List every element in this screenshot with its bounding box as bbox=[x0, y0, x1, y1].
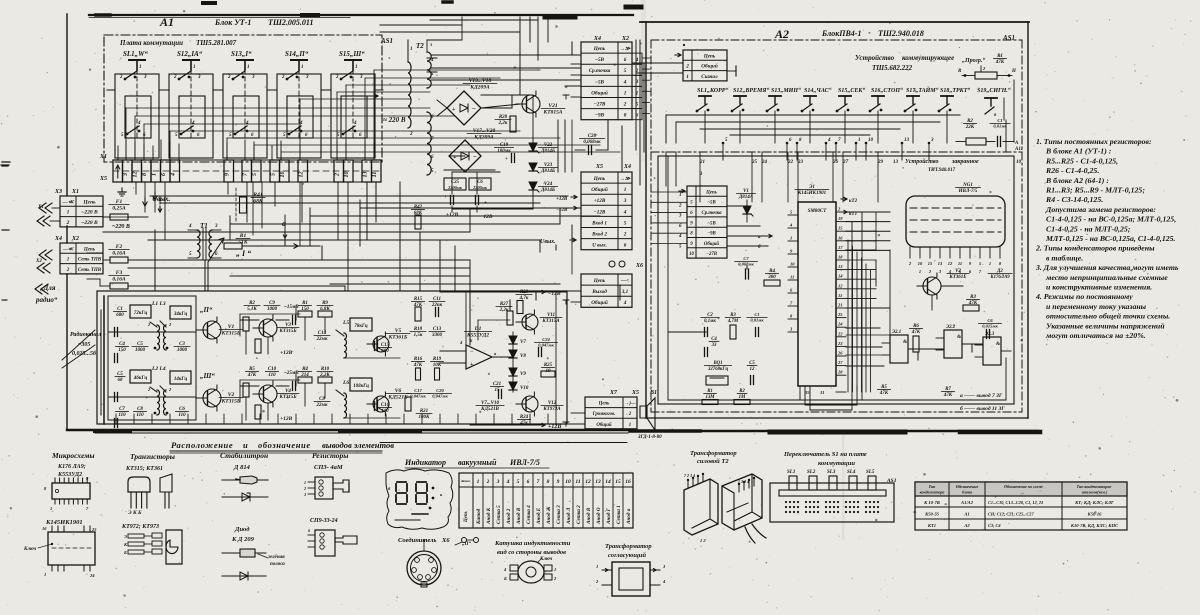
svg-text:СП3- 4аМ: СП3- 4аМ bbox=[314, 464, 343, 471]
svg-text:0,015мк: 0,015мк bbox=[982, 324, 998, 329]
svg-text:Х5: Х5 bbox=[631, 390, 639, 396]
svg-text:S14„ЧАС“: S14„ЧАС“ bbox=[804, 88, 832, 94]
svg-text:Цепь: Цепь bbox=[705, 190, 718, 195]
svg-text:Х2: Х2 bbox=[621, 36, 629, 42]
svg-text:150: 150 bbox=[118, 348, 126, 353]
svg-text:СН; С12; С21; С25...С27: СН; С12; С21; С25...С27 bbox=[988, 512, 1034, 517]
svg-text:и: и bbox=[243, 440, 248, 450]
svg-text:АS1: АS1 bbox=[380, 37, 393, 45]
svg-text:БлокПВ4-1: БлокПВ4-1 bbox=[821, 29, 861, 38]
svg-text:S14„П“: S14„П“ bbox=[285, 50, 309, 58]
svg-text:2: 2 bbox=[281, 75, 285, 80]
svg-text:1: 1 bbox=[477, 479, 480, 485]
svg-text:2: 2 bbox=[173, 75, 177, 80]
svg-text:−27В: −27В bbox=[706, 252, 718, 257]
svg-text:2: 2 bbox=[623, 231, 627, 237]
svg-text:32768кГц: 32768кГц bbox=[707, 367, 728, 372]
svg-text:С20: С20 bbox=[436, 388, 444, 393]
svg-text:Х7: Х7 bbox=[609, 390, 618, 396]
svg-text:согласующий: согласующий bbox=[608, 552, 646, 559]
svg-text:3: 3 bbox=[359, 75, 363, 80]
svg-text:ТИТ.940.017: ТИТ.940.017 bbox=[928, 168, 956, 173]
svg-text:1: 1 bbox=[247, 65, 250, 70]
svg-text:5: 5 bbox=[252, 173, 258, 176]
svg-text:V7: V7 bbox=[520, 340, 526, 345]
svg-text:−9В: −9В bbox=[595, 113, 605, 119]
svg-text:1: 1 bbox=[858, 138, 861, 143]
svg-text:+: + bbox=[505, 157, 508, 162]
svg-text:К145ИК1901: К145ИК1901 bbox=[797, 191, 826, 196]
svg-text:10К: 10К bbox=[433, 363, 442, 368]
svg-text:1: 1 bbox=[139, 65, 142, 70]
svg-text:Х4: Х4 bbox=[593, 36, 601, 42]
svg-text:2: 2 bbox=[486, 479, 490, 485]
svg-text:Тип: Тип bbox=[929, 484, 937, 489]
svg-text:С1-4-0,125 - на ВС-0,125а; МЛТ: С1-4-0,125 - на ВС-0,125а; МЛТ-0,125, bbox=[1046, 215, 1176, 224]
svg-text:Э: Э bbox=[124, 534, 127, 539]
svg-text:1: 1 bbox=[554, 567, 556, 572]
svg-text:К10-7В, КД, КЛС; КПС: К10-7В, КД, КЛС; КПС bbox=[1070, 523, 1119, 528]
svg-text:4: 4 bbox=[245, 121, 249, 126]
svg-text:Общий: Общий bbox=[591, 299, 608, 306]
svg-text:Цепь: Цепь bbox=[598, 402, 611, 407]
svg-text:Анод К: Анод К bbox=[485, 507, 492, 525]
svg-text:0,16А: 0,16А bbox=[112, 277, 126, 283]
svg-text:Общий: Общий bbox=[704, 241, 720, 247]
svg-text:КТ361Б: КТ361Б bbox=[388, 335, 408, 341]
svg-text:1: 1 bbox=[301, 65, 304, 70]
svg-text:С1: С1 bbox=[997, 118, 1002, 123]
svg-text:1: 1 bbox=[50, 506, 52, 511]
svg-text:Цепь: Цепь bbox=[464, 510, 469, 523]
svg-text:В1: В1 bbox=[649, 390, 657, 396]
svg-text:КТ315; КТ361: КТ315; КТ361 bbox=[125, 466, 163, 472]
svg-text:24: 24 bbox=[837, 322, 843, 327]
svg-text:КТ973А: КТ973А bbox=[542, 407, 561, 412]
svg-text:7: 7 bbox=[537, 479, 540, 485]
svg-text:1: 1 bbox=[304, 480, 306, 485]
svg-text:Анод Л: Анод Л bbox=[565, 507, 572, 525]
svg-text:22: 22 bbox=[837, 331, 843, 336]
svg-text:108кГц: 108кГц bbox=[353, 384, 369, 389]
svg-text:Анод В: Анод В bbox=[585, 507, 592, 525]
svg-text:10: 10 bbox=[918, 261, 923, 266]
svg-text:78кГц: 78кГц bbox=[354, 324, 368, 329]
svg-text:СП9-33-24: СП9-33-24 bbox=[310, 518, 338, 524]
svg-text:S15„СЕК“: S15„СЕК“ bbox=[838, 88, 865, 94]
svg-text:&: & bbox=[957, 335, 961, 340]
svg-text:4: 4 bbox=[623, 79, 627, 85]
svg-text:18: 18 bbox=[838, 255, 843, 260]
svg-text:К553УД2: К553УД2 bbox=[57, 472, 82, 478]
svg-text:33: 33 bbox=[711, 343, 717, 348]
svg-text:Х1: Х1 bbox=[71, 189, 79, 195]
svg-text:→)—: →)— bbox=[624, 402, 635, 407]
svg-text:~5В: ~5В bbox=[595, 57, 605, 63]
svg-text:68: 68 bbox=[118, 378, 124, 383]
svg-text:13: 13 bbox=[838, 264, 843, 269]
svg-text:Э2.3: Э2.3 bbox=[985, 332, 995, 337]
svg-text:~5В: ~5В bbox=[707, 201, 716, 206]
svg-text:0,068мк: 0,068мк bbox=[583, 140, 601, 145]
svg-text:0,068мк: 0,068мк bbox=[738, 262, 754, 267]
svg-text:Сетка 4: Сетка 4 bbox=[526, 505, 532, 524]
svg-text:Указанные величины напряжений: Указанные величины напряжений bbox=[1046, 321, 1165, 330]
svg-text:Х3: Х3 bbox=[54, 189, 62, 195]
svg-text:Сетка 1: Сетка 1 bbox=[616, 505, 622, 524]
svg-text:4: 4 bbox=[430, 58, 434, 63]
svg-text:2: 2 bbox=[303, 486, 306, 491]
svg-text:КД209А: КД209А bbox=[473, 135, 494, 141]
svg-text:1: 1 bbox=[152, 173, 158, 176]
svg-text:Анод а: Анод а bbox=[625, 508, 632, 525]
svg-text:1: 1 bbox=[629, 423, 631, 428]
svg-text:3. Для улучшения качества могу: 3. Для улучшения качества могут иметь bbox=[1035, 263, 1179, 272]
svg-text:б —— вывод 11 ЗГ: б —— вывод 11 ЗГ bbox=[960, 405, 1005, 412]
svg-text:−27В: −27В bbox=[594, 101, 606, 107]
svg-text:А2: А2 bbox=[774, 27, 789, 41]
svg-text:S16„СТОП“: S16„СТОП“ bbox=[871, 88, 903, 94]
svg-text:Трансформатор: Трансформатор bbox=[605, 543, 652, 550]
svg-text:могут отличаться на ±20%.: могут отличаться на ±20%. bbox=[1045, 331, 1146, 340]
svg-text:16: 16 bbox=[42, 526, 47, 531]
svg-text:Допустима замена резисторов:: Допустима замена резисторов: bbox=[1045, 205, 1156, 214]
svg-text:SМ80СТ: SМ80СТ bbox=[808, 209, 828, 214]
svg-text:А1: А1 bbox=[963, 512, 969, 517]
svg-text:1: 1 bbox=[989, 261, 991, 266]
svg-text:4: 4 bbox=[171, 173, 177, 177]
svg-text:~220 В: ~220 В bbox=[81, 220, 98, 226]
svg-text:L2 L4: L2 L4 bbox=[151, 366, 166, 372]
svg-text:14: 14 bbox=[838, 274, 843, 279]
svg-text:Громкогов.: Громкогов. bbox=[592, 412, 616, 417]
svg-text:„Прогр.“: „Прогр.“ bbox=[962, 58, 985, 64]
svg-text:S13„I“: S13„I“ bbox=[231, 50, 252, 58]
svg-text:С6: С6 bbox=[987, 318, 993, 323]
svg-text:2: 2 bbox=[628, 412, 632, 417]
svg-text:V9: V9 bbox=[520, 372, 526, 377]
svg-text:зелёная: зелёная bbox=[267, 555, 285, 560]
svg-text:Сеть ТПВ: Сеть ТПВ bbox=[78, 258, 102, 263]
svg-text:и переменному току указаны: и переменному току указаны bbox=[1046, 302, 1147, 311]
svg-text:Х6: Х6 bbox=[635, 263, 643, 269]
svg-text:Плата коммутации: Плата коммутации bbox=[119, 39, 183, 47]
svg-text:4: 4 bbox=[137, 121, 141, 126]
svg-text:3: 3 bbox=[635, 80, 639, 85]
svg-text:S17„ТАЙМ“: S17„ТАЙМ“ bbox=[906, 86, 939, 94]
svg-text:Ключ: Ключ bbox=[539, 557, 553, 562]
svg-text:0,1мк: 0,1мк bbox=[704, 319, 716, 324]
svg-text:+: + bbox=[452, 107, 456, 113]
svg-text:19: 19 bbox=[838, 216, 843, 221]
svg-text:0,047мк: 0,047мк bbox=[432, 394, 448, 399]
svg-text:+: + bbox=[470, 362, 474, 368]
svg-text:→≫: →≫ bbox=[620, 46, 631, 52]
svg-text:27: 27 bbox=[837, 360, 843, 365]
svg-text:КД209А: КД209А bbox=[469, 85, 490, 91]
svg-text:14: 14 bbox=[605, 479, 611, 485]
svg-text:3: 3 bbox=[143, 75, 147, 80]
svg-text:22мк: 22мк bbox=[316, 403, 328, 408]
svg-text:Обозначение: Обозначение bbox=[956, 484, 979, 489]
svg-text:„П“: „П“ bbox=[462, 541, 471, 547]
svg-text:Х2: Х2 bbox=[35, 259, 42, 264]
svg-text:К Д 209: К Д 209 bbox=[231, 536, 255, 543]
svg-text:SL1„W“: SL1„W“ bbox=[123, 50, 148, 58]
svg-text:6: 6 bbox=[624, 243, 627, 249]
svg-text:3: 3 bbox=[214, 224, 218, 229]
svg-text:А: А bbox=[1014, 141, 1019, 146]
svg-text:12: 12 bbox=[750, 367, 755, 372]
svg-text:ТШ5.281.007: ТШ5.281.007 bbox=[196, 39, 237, 47]
svg-text:47К: 47К bbox=[943, 393, 953, 398]
svg-text:~5В: ~5В bbox=[707, 221, 716, 226]
svg-text:−: − bbox=[472, 105, 476, 113]
svg-text:14кГц: 14кГц bbox=[174, 377, 188, 382]
svg-text:3: 3 bbox=[623, 198, 627, 204]
svg-text:ИВЛ-7/5: ИВЛ-7/5 bbox=[509, 458, 540, 467]
svg-text:КД521В: КД521В bbox=[480, 407, 499, 412]
svg-text:Б: Б bbox=[123, 550, 127, 555]
svg-text:9: 9 bbox=[225, 173, 231, 176]
svg-text:110: 110 bbox=[118, 413, 126, 418]
svg-text:Д 814: Д 814 bbox=[233, 464, 251, 471]
svg-text:КТ315А: КТ315А bbox=[541, 319, 560, 324]
svg-text:Общий: Общий bbox=[596, 422, 612, 428]
svg-text:ТШ5.682.222: ТШ5.682.222 bbox=[872, 64, 913, 72]
svg-text:Ключ: Ключ bbox=[23, 547, 37, 552]
svg-text:К176 ЛА9;: К176 ЛА9; bbox=[57, 464, 86, 470]
svg-text:−12В: −12В bbox=[594, 209, 606, 215]
svg-text:Вход 2: Вход 2 bbox=[591, 230, 607, 237]
svg-text:680: 680 bbox=[116, 313, 124, 318]
svg-text:10: 10 bbox=[565, 479, 571, 485]
svg-text:2,2к: 2,2к bbox=[498, 121, 508, 126]
svg-text:15: 15 bbox=[838, 226, 843, 231]
svg-text:11: 11 bbox=[838, 293, 842, 298]
svg-text:„П“: „П“ bbox=[200, 306, 213, 314]
svg-text:2. Типы конденсаторов приведен: 2. Типы конденсаторов приведены bbox=[1035, 244, 1155, 253]
svg-text:9: 9 bbox=[557, 479, 560, 485]
svg-text:1. Типы постоянных резисторов:: 1. Типы постоянных резисторов: bbox=[1036, 137, 1152, 146]
svg-text:„Ш“: „Ш“ bbox=[200, 372, 215, 380]
svg-text:11: 11 bbox=[372, 172, 378, 178]
svg-text:а —— вывод 7 ЗГ: а —— вывод 7 ЗГ bbox=[960, 392, 1003, 399]
svg-text:SL4: SL4 bbox=[847, 470, 856, 475]
svg-text:3: 3 bbox=[305, 75, 309, 80]
svg-text:С7: С7 bbox=[743, 256, 749, 261]
svg-text:1: 1 bbox=[919, 269, 921, 274]
svg-text:относительно общей точки схемы: относительно общей точки схемы. bbox=[1046, 312, 1170, 321]
svg-text:8: 8 bbox=[142, 173, 148, 176]
svg-text:11: 11 bbox=[958, 261, 962, 266]
svg-text:Цепь: Цепь bbox=[593, 46, 606, 52]
svg-text:1: 1 bbox=[700, 172, 703, 177]
svg-text:Диод: Диод bbox=[234, 526, 250, 533]
svg-text:Конт.: Конт. bbox=[460, 479, 471, 483]
svg-text:2: 2 bbox=[623, 101, 627, 107]
svg-text:Катушка индуктивности: Катушка индуктивности bbox=[494, 540, 571, 547]
svg-text:4. Режимы по постоянному: 4. Режимы по постоянному bbox=[1035, 292, 1133, 301]
svg-text:34кГц: 34кГц bbox=[173, 312, 188, 317]
svg-text:SL5: SL5 bbox=[866, 470, 875, 475]
svg-text:Анод Ж: Анод Ж bbox=[545, 506, 552, 525]
svg-text:Э2.2: Э2.2 bbox=[946, 325, 956, 330]
svg-text:Общий: Общий bbox=[591, 89, 608, 96]
svg-text:—≪: —≪ bbox=[62, 246, 74, 252]
svg-text:10: 10 bbox=[868, 138, 874, 143]
svg-text:0: 0 bbox=[624, 113, 627, 119]
svg-text:S12„ВРЕМЯ“: S12„ВРЕМЯ“ bbox=[733, 88, 769, 94]
svg-text:22К: 22К bbox=[965, 125, 975, 130]
svg-text:К176ЛА9: К176ЛА9 bbox=[989, 275, 1010, 280]
svg-text:22мк: 22мк bbox=[316, 337, 328, 342]
svg-text:А2: А2 bbox=[963, 523, 970, 528]
svg-text:2: 2 bbox=[335, 75, 339, 80]
svg-text:25: 25 bbox=[91, 527, 97, 532]
svg-text:В блоке А1 (УТ-1) :: В блоке А1 (УТ-1) : bbox=[1045, 147, 1112, 156]
svg-text:Сетка 5: Сетка 5 bbox=[496, 505, 502, 524]
svg-text:13: 13 bbox=[363, 172, 369, 178]
svg-text:3: 3 bbox=[303, 492, 306, 497]
svg-text:L6: L6 bbox=[342, 380, 349, 386]
svg-text:вакуумный: вакуумный bbox=[458, 458, 497, 467]
svg-text:4: 4 bbox=[191, 121, 195, 126]
svg-text:R1...R3; R5...R9 - МЛТ-0,125;: R1...R3; R5...R9 - МЛТ-0,125; bbox=[1045, 186, 1145, 195]
svg-text:Анод В: Анод В bbox=[515, 507, 522, 525]
svg-text:+12В: +12В bbox=[446, 212, 459, 218]
svg-text:„Для: „Для bbox=[40, 284, 56, 292]
svg-text:Цепь: Цепь bbox=[703, 53, 716, 59]
svg-text:+12В: +12В bbox=[594, 198, 606, 204]
svg-text:68К: 68К bbox=[253, 199, 263, 205]
svg-text:≈ 220 В: ≈ 220 В bbox=[383, 116, 406, 124]
svg-text:5: 5 bbox=[624, 68, 627, 74]
svg-text:Расположение: Расположение bbox=[171, 440, 233, 450]
svg-text:КТ315Б: КТ315Б bbox=[221, 331, 241, 337]
svg-text:Д814А: Д814А bbox=[738, 195, 754, 200]
svg-text:2: 2 bbox=[409, 132, 413, 137]
svg-text:31: 31 bbox=[819, 390, 825, 395]
svg-text:С1-4-0,25 - на МЛТ-0,25;: С1-4-0,25 - на МЛТ-0,25; bbox=[1046, 224, 1131, 233]
svg-text:SL2: SL2 bbox=[807, 470, 816, 475]
svg-text:7 2 3 4: 7 2 3 4 bbox=[684, 473, 695, 478]
svg-text:Стабилитрон: Стабилитрон bbox=[220, 451, 268, 460]
svg-text:12: 12 bbox=[299, 172, 305, 178]
svg-text:силовой Т2: силовой Т2 bbox=[697, 458, 729, 465]
svg-text:1: 1 bbox=[44, 572, 46, 577]
svg-text:4: 4 bbox=[353, 121, 357, 126]
svg-text:коммутирующее: коммутирующее bbox=[902, 54, 954, 62]
svg-text:25: 25 bbox=[837, 312, 843, 317]
svg-text:1 2: 1 2 bbox=[700, 538, 706, 543]
svg-text:Э2.1: Э2.1 bbox=[892, 330, 901, 335]
svg-text:Д814Б: Д814Б bbox=[540, 149, 556, 154]
svg-text:8: 8 bbox=[547, 479, 550, 485]
svg-text:К50-35: К50-35 bbox=[924, 512, 940, 517]
svg-text:С1: С1 bbox=[754, 312, 759, 317]
svg-text:3: 3 bbox=[251, 75, 255, 80]
svg-text:—≪: —≪ bbox=[61, 199, 75, 205]
svg-text:2: 2 bbox=[685, 64, 689, 70]
svg-text:10: 10 bbox=[344, 172, 350, 178]
svg-text:47К: 47К bbox=[247, 373, 257, 378]
svg-text:S12„IA“: S12„IA“ bbox=[177, 50, 203, 58]
svg-text:1: 1 bbox=[686, 74, 689, 80]
svg-text:2: 2 bbox=[119, 75, 123, 80]
svg-text:22пк: 22пк bbox=[431, 303, 443, 308]
svg-text:21: 21 bbox=[837, 303, 843, 308]
svg-text:Д814Б: Д814Б bbox=[540, 188, 556, 193]
svg-text:обозначение: обозначение bbox=[258, 440, 311, 450]
svg-text:12: 12 bbox=[838, 283, 843, 288]
svg-text:Э К Б: Э К Б bbox=[128, 510, 142, 516]
svg-text:17: 17 bbox=[838, 245, 843, 250]
svg-text:Резисторы: Резисторы bbox=[312, 451, 348, 460]
svg-text:1: 1 bbox=[410, 47, 413, 52]
svg-text:15: 15 bbox=[928, 261, 933, 266]
svg-text:V8: V8 bbox=[520, 354, 526, 359]
svg-text:110: 110 bbox=[136, 413, 144, 418]
svg-text:1: 1 bbox=[193, 65, 196, 70]
svg-text:6: 6 bbox=[308, 528, 310, 533]
svg-text:КТ; КД; КЛС; КЛГ: КТ; КД; КЛС; КЛГ bbox=[1074, 500, 1114, 505]
svg-text:1: 1 bbox=[67, 258, 70, 263]
svg-text:Ср.точка: Ср.точка bbox=[702, 211, 723, 216]
svg-text:Выход: Выход bbox=[591, 288, 607, 295]
svg-text:3300: 3300 bbox=[431, 333, 443, 338]
svg-text:Х5: Х5 bbox=[595, 164, 603, 170]
svg-text:3: 3 bbox=[123, 173, 129, 177]
svg-text:5: 5 bbox=[517, 479, 520, 485]
svg-text:~25мВ: ~25мВ bbox=[284, 371, 299, 376]
svg-text:Переключатель S1 на плате: Переключатель S1 на плате bbox=[783, 451, 867, 458]
svg-text:110: 110 bbox=[268, 373, 276, 378]
svg-text:4: 4 bbox=[623, 300, 627, 306]
svg-text:28: 28 bbox=[837, 370, 843, 375]
svg-text:16: 16 bbox=[625, 479, 631, 485]
svg-text:Ср.точка: Ср.точка bbox=[589, 68, 611, 74]
svg-text:4: 4 bbox=[635, 58, 639, 63]
svg-text:3: 3 bbox=[496, 479, 500, 485]
svg-text:2: 2 bbox=[66, 268, 70, 273]
svg-text:Общий: Общий bbox=[591, 186, 608, 193]
svg-text:+12В: +12В bbox=[280, 416, 293, 422]
svg-text:Сетка 3: Сетка 3 bbox=[556, 505, 562, 524]
svg-text:3: 3 bbox=[678, 214, 682, 219]
svg-text:Анод Е: Анод Е bbox=[535, 507, 542, 525]
svg-text:Цепь: Цепь bbox=[83, 247, 96, 252]
svg-text:и конструктивные изменения.: и конструктивные изменения. bbox=[1046, 283, 1152, 292]
svg-text:13: 13 bbox=[893, 160, 899, 165]
svg-text:Цепь: Цепь bbox=[593, 278, 606, 284]
svg-text:72кГц: 72кГц bbox=[134, 311, 148, 316]
svg-text:SL1: SL1 bbox=[787, 470, 795, 475]
svg-text:1000: 1000 bbox=[267, 307, 278, 312]
svg-text:Обозначение по схеме: Обозначение по схеме bbox=[1004, 484, 1043, 489]
svg-text:4: 4 bbox=[188, 224, 192, 229]
svg-text:4: 4 bbox=[623, 209, 627, 215]
svg-text:з: з bbox=[429, 43, 432, 48]
svg-text:1: 1 bbox=[679, 193, 682, 198]
svg-text:~15мВ: ~15мВ bbox=[284, 305, 299, 310]
svg-text:5,1К: 5,1К bbox=[247, 307, 257, 312]
svg-text:АS1: АS1 bbox=[886, 478, 897, 484]
svg-text:Анод О: Анод О bbox=[595, 507, 602, 525]
svg-text:Индикатор: Индикатор bbox=[404, 458, 446, 467]
svg-text:47К: 47К bbox=[879, 391, 889, 396]
svg-text:1 2 3 4: 1 2 3 4 bbox=[738, 479, 749, 484]
